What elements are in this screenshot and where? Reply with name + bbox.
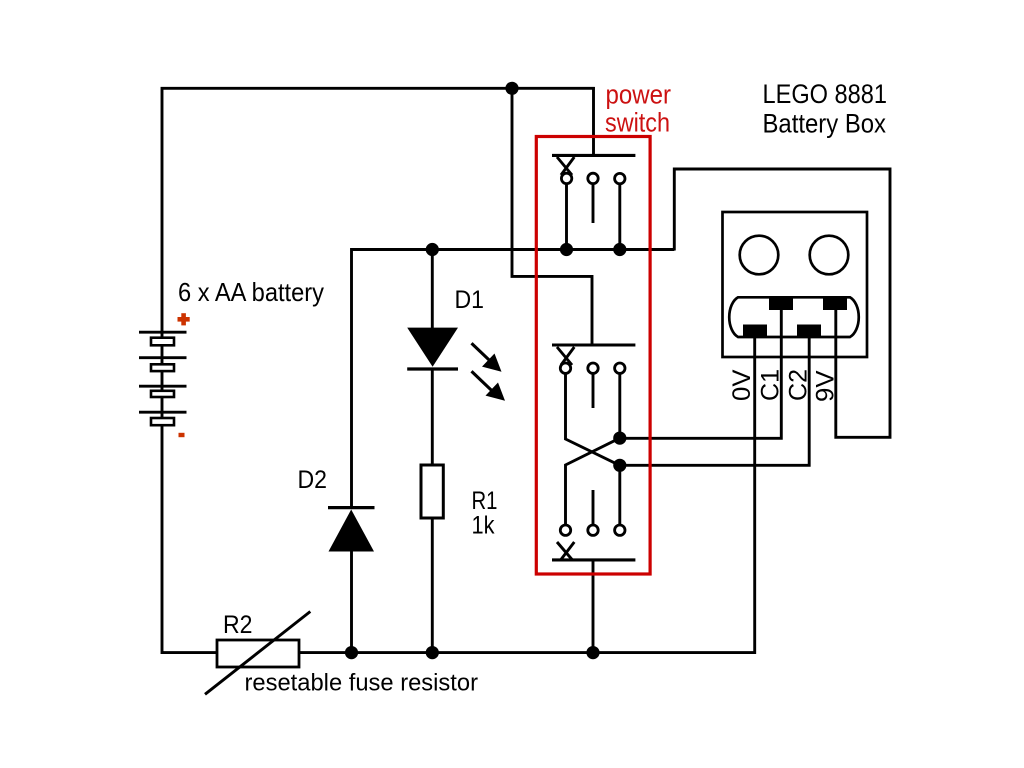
svg-text:1k: 1k xyxy=(472,512,495,540)
connector pad C2 (bottom) xyxy=(797,325,821,337)
junction: S3 / 0V rail xyxy=(586,646,599,659)
switch S2 actuator cross xyxy=(557,347,574,365)
wire: S1 right contact to 9V rail xyxy=(618,184,621,250)
switch S3 contact circles xyxy=(560,525,625,535)
wire: switch S1 feed from top rail xyxy=(592,87,595,156)
junction: node C1 xyxy=(613,432,626,445)
svg-text:D2: D2 xyxy=(298,466,328,494)
label: power switch xyxy=(605,80,671,138)
wire: battery positive riser and top rail xyxy=(162,88,595,334)
R2 variable fuse strike-through xyxy=(205,612,310,695)
connector shell xyxy=(729,297,859,337)
switch S3 common bar xyxy=(552,558,635,561)
battery - polarity mark xyxy=(179,433,185,437)
diode D2 xyxy=(328,508,375,552)
wire: R1 to 0V rail xyxy=(431,518,434,653)
resistor R1 xyxy=(421,465,443,518)
wire: 0V rail right segment to connector pin 0V xyxy=(299,331,755,653)
wire: branch from top rail down to switch S2 xyxy=(512,88,592,346)
wire: S1 left contact to 9V rail xyxy=(565,184,568,250)
resistor R2 xyxy=(217,640,299,667)
wire: 9V rail xyxy=(352,248,675,251)
junction: 9V rail / S1 right contact xyxy=(613,243,626,256)
battery box screw hole left xyxy=(740,236,779,275)
connector pad 0V (bottom) xyxy=(743,325,767,337)
svg-text:0V: 0V xyxy=(728,369,756,401)
svg-text:switch: switch xyxy=(605,108,670,138)
power switch enclosure (red box) xyxy=(536,137,650,575)
svg-text:D1: D1 xyxy=(455,286,485,314)
wire: 0V rail left segment from battery minus xyxy=(162,424,217,653)
wire: S2 right contact to node C1 xyxy=(618,374,621,438)
wire: S3 middle contact stub xyxy=(592,490,595,525)
wire: 9V rail down to diode D2 xyxy=(350,248,353,507)
wire: D1 cathode to R1 xyxy=(431,370,434,466)
wire: 9V rail down to LED D1 xyxy=(431,250,434,330)
wire: S2 middle contact stub xyxy=(592,374,595,408)
switch S2 common bar xyxy=(552,343,635,346)
LEGO 8881 battery box outline xyxy=(723,212,868,357)
wire: D2 anode to 0V rail xyxy=(350,551,353,653)
wire: node C2 down to S3 right contact xyxy=(618,465,621,525)
battery + polarity mark xyxy=(178,313,190,325)
wire: node C2 to connector pin C2 xyxy=(620,331,809,465)
switch S3 actuator cross xyxy=(557,542,574,560)
switch S1 actuator cross xyxy=(557,157,574,175)
LED D1 light arrow 1 xyxy=(472,343,502,372)
battery B1: 6 x AA cells xyxy=(139,332,187,425)
svg-text:9V: 9V xyxy=(812,370,840,402)
wire: S3 common to 0V rail xyxy=(592,560,595,653)
svg-text:R2: R2 xyxy=(223,611,253,639)
switch S1 contact circles xyxy=(561,173,625,184)
svg-text:power: power xyxy=(606,80,672,110)
label: LEGO 8881 Battery Box xyxy=(763,79,888,139)
switch S1 common bar xyxy=(552,154,635,157)
wire: 9V feed loop to battery box pin 9V xyxy=(674,169,890,437)
junction: R1 / 0V rail xyxy=(426,646,439,659)
svg-text:Battery Box: Battery Box xyxy=(763,109,887,139)
svg-text:6 x AA battery: 6 x AA battery xyxy=(178,277,324,307)
svg-text:C1: C1 xyxy=(757,369,785,401)
connector pad C1 (top) xyxy=(769,298,793,310)
switch S2 contact circles xyxy=(560,363,625,373)
svg-text:C2: C2 xyxy=(785,369,813,401)
wire: S1 middle contact stub xyxy=(592,184,595,223)
wire: crossover node C1 to left xyxy=(566,438,620,525)
wire: S2 left contact down to crossover xyxy=(566,374,620,466)
battery box screw hole right xyxy=(810,236,849,275)
svg-text:resetable fuse resistor: resetable fuse resistor xyxy=(245,670,479,697)
junction: 9V rail / D1 branch xyxy=(426,243,439,256)
junction: node C2 xyxy=(613,459,626,472)
wire: node C1 to connector pin C1 xyxy=(620,306,782,438)
svg-text:LEGO 8881: LEGO 8881 xyxy=(763,79,888,109)
junction: D2 / 0V rail xyxy=(345,646,358,659)
LED D1 light arrow 2 xyxy=(472,371,506,401)
junction: top rail / S2 branch xyxy=(505,82,518,95)
connector pad 9V (top) xyxy=(823,298,847,310)
LED D1 xyxy=(407,328,458,369)
junction: 9V rail / S1 left contact xyxy=(560,243,573,256)
